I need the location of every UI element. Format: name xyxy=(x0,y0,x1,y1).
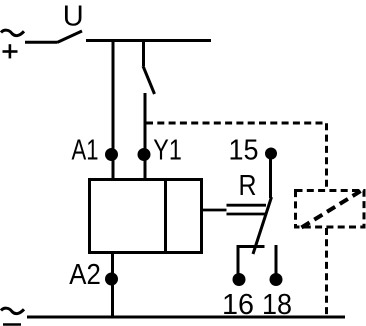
mechanical link double line lower xyxy=(227,213,267,216)
wire top bus xyxy=(86,39,211,42)
changeover contact blade xyxy=(253,197,272,254)
mechanical armature link single line xyxy=(203,209,227,212)
svg-text:A1: A1 xyxy=(72,135,99,167)
timing element diagonal xyxy=(302,191,362,228)
node Y1 dot xyxy=(138,148,151,161)
svg-text:R: R xyxy=(239,170,257,202)
svg-text:15: 15 xyxy=(229,135,259,167)
wire Y1 branch upper xyxy=(142,39,145,66)
wire terminal 18 stub xyxy=(275,245,278,274)
contact bracket 16 horizontal xyxy=(237,245,265,248)
plus symbol (top supply polarity) xyxy=(3,44,18,58)
svg-text:Y1: Y1 xyxy=(153,135,182,167)
AC symbol tilde (bottom supply) xyxy=(1,308,24,313)
node A2 dot xyxy=(105,273,118,286)
dashed control link wire xyxy=(146,123,327,190)
dashed wire below timing box xyxy=(325,228,328,316)
switch U blade xyxy=(57,31,82,43)
minus symbol (bottom supply polarity) xyxy=(3,323,21,326)
AC symbol tilde (top supply) xyxy=(1,30,24,35)
wire supply feed xyxy=(25,41,57,44)
contact blade Y1 branch xyxy=(143,66,155,94)
relay coil divider xyxy=(164,178,167,254)
wire Y1 branch lower xyxy=(144,93,147,179)
timing element dashed box xyxy=(296,191,365,228)
mechanical link double line upper xyxy=(227,204,267,207)
wire terminal 16 stub xyxy=(237,245,240,274)
terminal 15 dot xyxy=(265,148,277,160)
wire contact 15 vertical xyxy=(269,158,272,198)
terminal 18 dot xyxy=(270,273,283,286)
wire A1 branch vertical xyxy=(112,39,115,179)
relay coil K1 box xyxy=(90,180,202,253)
node A1 dot xyxy=(105,148,118,161)
wire A2 branch vertical xyxy=(111,254,114,317)
svg-text:U: U xyxy=(63,1,84,33)
terminal 16 dot xyxy=(233,273,246,286)
svg-text:A2: A2 xyxy=(69,259,101,291)
wire bottom bus xyxy=(27,316,345,319)
